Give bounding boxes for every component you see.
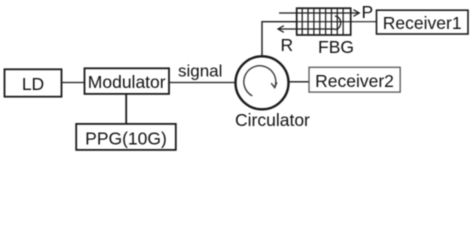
- wire Modulator to PPG: [125, 94, 127, 124]
- transmitted wave arrow P: [279, 12, 358, 14]
- circulator body: [236, 56, 289, 109]
- svg-text:Modulator: Modulator: [88, 72, 166, 92]
- box Receiver2: [309, 67, 400, 92]
- reflected wave arrow R: [279, 28, 335, 30]
- svg-text:Receiver1: Receiver1: [383, 13, 462, 33]
- box PPG(10G): [76, 124, 176, 150]
- box LD: [5, 69, 62, 96]
- circulator rotation arrow: [244, 66, 277, 96]
- wire Modulator to Circulator: [169, 82, 236, 84]
- svg-text:Receiver2: Receiver2: [315, 71, 394, 91]
- box Modulator: [85, 68, 170, 94]
- fiber line through FBG to Receiver1: [297, 21, 377, 23]
- svg-text:signal: signal: [178, 62, 222, 81]
- wire LD to Modulator: [62, 82, 85, 84]
- FBG grating lines: [302, 8, 343, 35]
- svg-text:PPG(10G): PPG(10G): [85, 128, 167, 148]
- reflection U-turn inside FBG: [335, 16, 341, 29]
- box Receiver1: [377, 10, 469, 34]
- svg-text:LD: LD: [22, 74, 44, 94]
- svg-text:Circulator: Circulator: [235, 110, 310, 130]
- svg-text:P: P: [362, 2, 374, 22]
- svg-text:FBG: FBG: [318, 37, 354, 57]
- wire Circulator to Receiver2: [289, 81, 310, 83]
- svg-text:R: R: [281, 35, 294, 55]
- FBG box: [297, 8, 351, 35]
- wire Circulator up to FBG: [262, 22, 297, 57]
